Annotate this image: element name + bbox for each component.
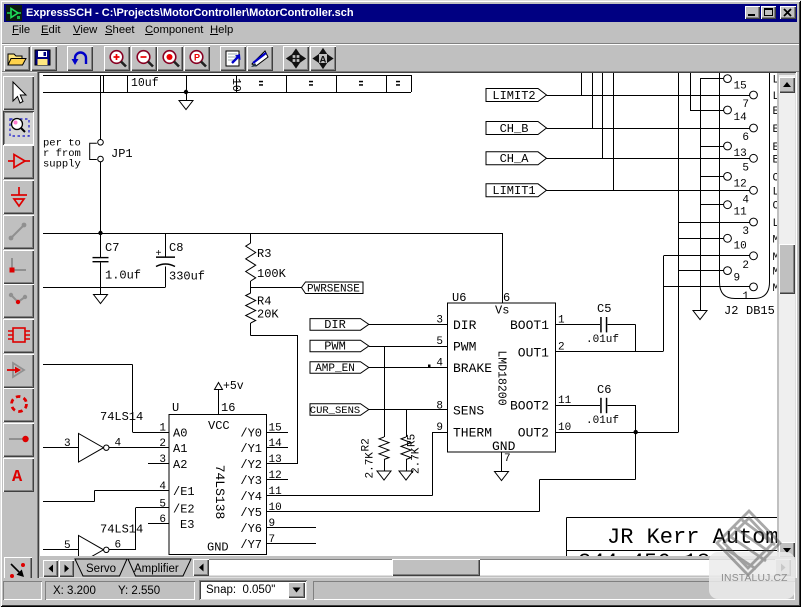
wire THERM xyxy=(433,432,448,434)
flag AMP_EN xyxy=(310,362,369,374)
wire gate2 output to E2 xyxy=(109,549,136,551)
jumper JP1 xyxy=(98,140,104,146)
title block frame xyxy=(567,517,777,519)
DB15 pins right column xyxy=(750,91,758,99)
open icon xyxy=(6,49,28,68)
wire cap cell divider xyxy=(103,75,105,92)
svg-text:3: 3 xyxy=(436,315,443,327)
wire LIMIT1 to pin4 xyxy=(547,190,750,192)
svg-text:/Y4: /Y4 xyxy=(240,490,262,504)
capacitor C5 xyxy=(600,317,602,332)
wire cap cell divider xyxy=(336,75,338,92)
svg-text:U: U xyxy=(172,401,179,415)
wire PWM to R2 xyxy=(384,346,386,437)
svg-text:2: 2 xyxy=(159,438,166,450)
wire pin13 xyxy=(700,146,724,148)
svg-text:74LS14: 74LS14 xyxy=(100,410,143,424)
wire Y0 stub xyxy=(267,432,289,434)
palette select tool xyxy=(3,76,34,110)
flag PWM xyxy=(310,340,369,352)
wire Vs drop to U6 xyxy=(502,233,504,303)
junction dot top band xyxy=(184,90,188,94)
svg-text:/Y7: /Y7 xyxy=(240,538,262,552)
svg-text:.01uf: .01uf xyxy=(586,334,619,346)
svg-text:VCC: VCC xyxy=(208,419,230,433)
palette junction tool xyxy=(3,423,34,457)
wire Y5 riser xyxy=(635,432,637,480)
capacitor row plates xyxy=(259,81,263,83)
wire PWRSENSE xyxy=(251,287,302,289)
svg-text:/Y5: /Y5 xyxy=(240,506,262,520)
wire Y6 stub xyxy=(267,527,317,529)
svg-text:16: 16 xyxy=(221,401,235,415)
wire riser c xyxy=(602,73,604,158)
ground top band xyxy=(186,92,188,100)
wire gate1 output to A1 xyxy=(109,447,169,449)
svg-text:9: 9 xyxy=(734,273,741,285)
status bar xyxy=(3,578,798,602)
wire gnd bus lower xyxy=(43,287,165,289)
tab strip background xyxy=(40,557,795,577)
wire riser d xyxy=(613,73,615,190)
palette component tool xyxy=(3,319,34,353)
wire long riser to DB15 xyxy=(678,73,680,432)
svg-text:+: + xyxy=(156,249,162,260)
wire C6 to OUT2 xyxy=(607,405,635,407)
svg-text:A: A xyxy=(12,468,23,487)
svg-text:5: 5 xyxy=(64,540,71,552)
svg-text:Amplifier: Amplifier xyxy=(134,563,179,575)
wire Y4 to THERM xyxy=(267,495,433,497)
svg-text:2: 2 xyxy=(742,260,749,272)
svg-text:E3: E3 xyxy=(180,518,194,532)
svg-text:C6: C6 xyxy=(597,383,611,397)
svg-text:13: 13 xyxy=(269,454,282,466)
+5v supply xyxy=(215,383,223,390)
capacitor C8 polarized xyxy=(165,233,167,257)
svg-text:7: 7 xyxy=(742,99,749,111)
svg-text:L: L xyxy=(773,186,778,198)
wire pin10 xyxy=(678,238,723,240)
wire cap cell divider xyxy=(411,75,413,92)
svg-text:C7: C7 xyxy=(105,241,119,255)
wire LIMIT2 to pin7 xyxy=(547,95,750,97)
undo icon xyxy=(69,49,91,68)
svg-text:14: 14 xyxy=(269,438,283,450)
svg-text:12: 12 xyxy=(734,178,747,190)
capacitor C6 xyxy=(600,398,602,413)
palette zoom area tool xyxy=(3,111,34,145)
toolbar separator xyxy=(2,43,799,44)
wire pin12 xyxy=(700,176,724,178)
svg-text:C5: C5 xyxy=(597,302,611,316)
svg-text:R4: R4 xyxy=(257,295,271,309)
zoom prev xyxy=(186,48,210,70)
svg-text:1: 1 xyxy=(742,291,749,303)
wire pin9 xyxy=(678,270,723,272)
wire cap cell divider xyxy=(127,75,129,92)
wire gnd column xyxy=(700,79,702,287)
wire pin1 xyxy=(664,286,750,288)
wire cap cell divider xyxy=(186,75,188,92)
canvas sunken frame xyxy=(37,71,797,579)
wire R4 bottom xyxy=(250,323,252,336)
svg-text:344 456 18: 344 456 18 xyxy=(578,550,710,556)
svg-text:5: 5 xyxy=(436,336,443,348)
wire pin16 xyxy=(218,390,220,415)
wire BOOT2 xyxy=(556,405,601,407)
check icon xyxy=(249,48,271,69)
wire gate2 input xyxy=(43,549,79,551)
svg-text:DIR: DIR xyxy=(453,318,477,333)
svg-text:100K: 100K xyxy=(257,267,287,281)
ground below C7 xyxy=(100,288,102,295)
svg-text:OUT1: OUT1 xyxy=(518,346,549,361)
palette circle tool xyxy=(3,388,34,422)
resistor R5 xyxy=(401,437,411,460)
svg-text:U6: U6 xyxy=(452,291,466,305)
zoom in xyxy=(106,48,130,70)
svg-text:E: E xyxy=(773,106,778,118)
svg-text:CH_B: CH_B xyxy=(500,122,529,136)
svg-text:10: 10 xyxy=(734,240,747,252)
palette text tool xyxy=(3,458,34,492)
svg-text:DIR: DIR xyxy=(324,318,346,332)
svg-text:6: 6 xyxy=(742,132,749,144)
svg-text:A1: A1 xyxy=(173,442,187,456)
wire A2 stub xyxy=(148,463,169,465)
move text tool xyxy=(312,48,334,69)
svg-text:10uf: 10uf xyxy=(131,77,159,90)
flag CH_A xyxy=(486,152,547,165)
svg-text:C: C xyxy=(773,172,778,184)
wire riser b xyxy=(592,73,594,128)
svg-text:11: 11 xyxy=(269,486,283,498)
wire Y3 stub xyxy=(267,479,289,481)
svg-text:L: L xyxy=(773,75,778,87)
svg-text:13: 13 xyxy=(734,148,747,160)
svg-text:CH_A: CH_A xyxy=(500,152,530,166)
svg-text:3: 3 xyxy=(742,226,749,238)
svg-text:BOOT2: BOOT2 xyxy=(510,399,549,414)
wire gate1 input xyxy=(43,447,79,449)
svg-text:/Y3: /Y3 xyxy=(240,474,262,488)
svg-text:14: 14 xyxy=(734,112,748,124)
svg-text:9: 9 xyxy=(269,518,276,530)
svg-text:10: 10 xyxy=(269,502,282,514)
svg-text:Servo: Servo xyxy=(86,563,116,575)
svg-text:/E1: /E1 xyxy=(173,485,195,499)
flag CH_B xyxy=(486,122,547,135)
flag LIMIT1 xyxy=(486,184,547,197)
app icon xyxy=(6,5,22,21)
svg-text:3: 3 xyxy=(64,438,71,450)
wire Y5 xyxy=(267,511,540,513)
palette corner tool xyxy=(3,250,34,284)
svg-text:/E2: /E2 xyxy=(173,502,195,516)
svg-text:L: L xyxy=(773,91,778,103)
wire cap cell divider xyxy=(286,75,288,92)
svg-text:5: 5 xyxy=(159,498,166,510)
wire OUT1 riser xyxy=(663,256,665,351)
svg-text:/Y1: /Y1 xyxy=(240,442,262,456)
svg-text:GND: GND xyxy=(492,439,516,454)
svg-text:M: M xyxy=(773,252,778,264)
svg-text:3: 3 xyxy=(159,454,166,466)
wire top Vcc bus xyxy=(43,75,411,77)
flag PWRSENSE xyxy=(302,282,364,294)
svg-text:SENS: SENS xyxy=(453,404,484,419)
wire top gnd bus xyxy=(43,92,411,94)
wire CH_B to pin6 xyxy=(547,128,750,130)
wire BOOT1 xyxy=(556,324,601,326)
svg-text:2.7K: 2.7K xyxy=(365,452,377,479)
resistor R2 xyxy=(379,437,389,460)
svg-text:74LS14: 74LS14 xyxy=(100,523,143,537)
wire PWM xyxy=(369,346,448,348)
svg-text:4: 4 xyxy=(436,358,443,370)
svg-text:supply: supply xyxy=(43,159,81,171)
no-connect tick pin4 xyxy=(428,365,431,368)
svg-text:AMP_EN: AMP_EN xyxy=(315,363,355,375)
svg-text:/Y2: /Y2 xyxy=(240,458,262,472)
junction dot OUT2 xyxy=(634,430,638,434)
wire Y2 to AMP_EN xyxy=(267,463,298,465)
svg-text:DB15: DB15 xyxy=(746,304,775,318)
svg-text:330uf: 330uf xyxy=(169,270,205,284)
svg-text:PWM: PWM xyxy=(324,340,346,354)
wire Y1 stub xyxy=(267,447,289,449)
wire pin3 xyxy=(678,222,749,224)
menu bar xyxy=(4,24,797,42)
svg-text:A2: A2 xyxy=(173,458,187,472)
svg-text:M: M xyxy=(773,283,778,295)
svg-text:7: 7 xyxy=(269,534,276,546)
svg-text:8: 8 xyxy=(436,401,443,413)
wire CUR_SENS to R5 xyxy=(406,410,408,438)
palette rotate tool xyxy=(3,354,34,388)
wire E3 stub xyxy=(148,523,169,525)
svg-text:Vs: Vs xyxy=(495,304,509,318)
svg-text:C: C xyxy=(773,201,778,213)
wire riser a xyxy=(581,73,583,95)
snap combo xyxy=(199,580,307,600)
min/max/close xyxy=(745,6,760,19)
svg-text:PWRSENSE: PWRSENSE xyxy=(307,284,360,296)
svg-text:R3: R3 xyxy=(257,247,271,261)
svg-text:CUR_SENS: CUR_SENS xyxy=(310,405,360,417)
wire E1 net xyxy=(43,501,95,503)
palette port tool xyxy=(3,145,34,179)
DB15 pins left column xyxy=(724,75,732,83)
wire AMP_EN xyxy=(369,367,448,369)
flag CUR_SENS xyxy=(310,404,369,416)
svg-text:.01uf: .01uf xyxy=(586,415,619,427)
svg-text:P: P xyxy=(194,53,200,63)
svg-text:+5v: +5v xyxy=(223,380,244,393)
vertical scrollbar xyxy=(779,75,795,558)
capacitor C7 xyxy=(100,233,102,258)
op-amp U6 LMD18200 box xyxy=(448,303,556,452)
svg-text:OUT2: OUT2 xyxy=(518,426,549,441)
wire Y7 stub xyxy=(267,543,317,545)
svg-text:GND: GND xyxy=(207,541,229,555)
svg-text:15: 15 xyxy=(734,81,747,93)
svg-text:20K: 20K xyxy=(257,308,279,322)
svg-text:11: 11 xyxy=(734,207,748,219)
sheet tabs xyxy=(74,558,204,578)
ground U6 pin7 xyxy=(501,452,503,472)
svg-text:R5: R5 xyxy=(407,434,419,447)
svg-text:/Y0: /Y0 xyxy=(240,427,262,441)
wire Vs bus xyxy=(43,233,503,235)
wire riser pin14 xyxy=(690,73,692,110)
save icon xyxy=(34,49,52,67)
move tool xyxy=(285,48,307,69)
svg-text:4: 4 xyxy=(742,194,749,206)
svg-text:C8: C8 xyxy=(169,241,183,255)
resistor R3 xyxy=(250,233,252,243)
svg-text:R2: R2 xyxy=(361,438,373,451)
wire JP1 upper xyxy=(100,75,102,140)
svg-text:2.7K: 2.7K xyxy=(411,447,423,474)
wire JP1 lower xyxy=(100,162,102,233)
horizontal scrollbar xyxy=(193,559,209,576)
svg-text:LIMIT2: LIMIT2 xyxy=(492,89,535,103)
svg-text:E: E xyxy=(773,154,778,166)
watermark instaluj.cz xyxy=(709,552,795,599)
wire cap cell divider xyxy=(386,75,388,92)
svg-text:E: E xyxy=(773,142,778,154)
svg-text:12: 12 xyxy=(269,470,282,482)
svg-text:J2: J2 xyxy=(724,304,738,318)
palette snake wire tool xyxy=(3,284,34,318)
wire CUR_SENS xyxy=(369,409,448,411)
svg-text:M: M xyxy=(773,234,778,246)
title bar xyxy=(4,4,797,22)
svg-text:10: 10 xyxy=(229,78,242,92)
wire pin11 xyxy=(700,204,724,206)
svg-text:JP1: JP1 xyxy=(111,147,133,161)
wire C5 to OUT1 xyxy=(607,324,635,326)
zoom out xyxy=(133,48,157,70)
resistor R4 xyxy=(246,293,256,323)
ground DB15 pin1 xyxy=(700,287,702,311)
wire DIR xyxy=(369,324,448,326)
pan mini button xyxy=(4,557,32,584)
wire cap cell divider xyxy=(236,75,238,92)
properties icon xyxy=(223,48,245,69)
svg-text:/Y6: /Y6 xyxy=(240,522,262,536)
svg-text:L: L xyxy=(773,218,778,230)
svg-text:7: 7 xyxy=(504,453,511,465)
svg-text:PWM: PWM xyxy=(453,340,476,355)
svg-text:LIMIT1: LIMIT1 xyxy=(492,184,535,198)
svg-text:BOOT1: BOOT1 xyxy=(510,318,549,333)
svg-text:E: E xyxy=(773,124,778,136)
svg-text:1.0uf: 1.0uf xyxy=(105,269,141,283)
svg-text:4: 4 xyxy=(159,481,166,493)
wire OUT2 xyxy=(556,432,679,434)
wire pin2 xyxy=(664,255,750,257)
wire CH_A to pin5 xyxy=(547,158,750,160)
flag DIR xyxy=(310,319,369,331)
connector J2 DB15 shell xyxy=(720,73,770,299)
palette ground tool xyxy=(3,180,34,214)
palette wire tool xyxy=(3,215,34,249)
svg-text:BRAKE: BRAKE xyxy=(453,361,492,376)
svg-text:A0: A0 xyxy=(173,427,187,441)
junction dot Vs bus xyxy=(98,231,102,235)
zoom fit xyxy=(159,48,183,70)
svg-text:THERM: THERM xyxy=(453,426,492,441)
svg-text:A: A xyxy=(319,55,326,66)
flag LIMIT2 xyxy=(486,89,547,102)
wire OUT1 xyxy=(556,351,664,353)
svg-text:LMD18200: LMD18200 xyxy=(495,350,508,405)
svg-text:M: M xyxy=(773,267,778,279)
svg-text:74LS138: 74LS138 xyxy=(212,465,227,520)
svg-text:6: 6 xyxy=(159,514,166,526)
IC U 74LS138 box xyxy=(169,415,267,555)
wire A0 net xyxy=(43,364,133,366)
svg-text:5: 5 xyxy=(742,162,749,174)
